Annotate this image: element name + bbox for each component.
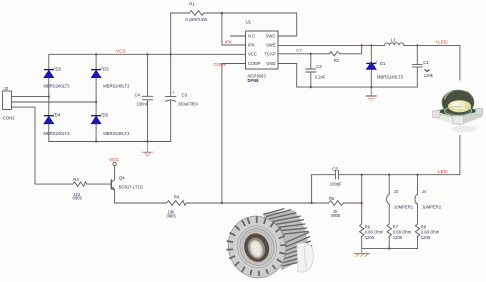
svg-text:0.68 Ohm: 0.68 Ohm <box>393 230 412 235</box>
capacitor C2 plates <box>306 68 316 70</box>
capacitor C4 leads <box>147 54 149 96</box>
svg-text:D5: D5 <box>103 113 109 118</box>
svg-text:COMP: COMP <box>248 61 261 66</box>
wire COMP vertical down <box>221 64 223 204</box>
bridge left column <box>48 54 50 69</box>
wire +LED vertical lower behind photo <box>459 135 461 175</box>
resistor R2 <box>329 52 340 56</box>
svg-text:D1: D1 <box>380 61 386 66</box>
photo of MR16 LED lamp <box>219 201 318 282</box>
resistor R6 column <box>361 175 363 224</box>
capacitor C1 leads <box>416 45 418 64</box>
svg-text:SWE: SWE <box>266 42 276 47</box>
capacitor C4 plates <box>142 95 152 97</box>
transistor Q4 <box>110 180 112 189</box>
svg-text:MBRS240LT3: MBRS240LT3 <box>377 74 404 79</box>
C1 polarity arrow <box>425 69 430 71</box>
diode D2 <box>44 67 56 78</box>
wire bottom joining R6 R7 R8 <box>362 248 418 250</box>
svg-text:L1: L1 <box>391 37 396 42</box>
capacitor C5 plates <box>334 170 336 179</box>
svg-text:COMP: COMP <box>213 62 226 67</box>
resistor R1 <box>190 11 204 16</box>
connector J2 pin wires <box>12 96 49 98</box>
svg-text:C5: C5 <box>332 166 338 171</box>
svg-text:MBRS240LT3: MBRS240LT3 <box>44 131 71 136</box>
wire R4 to R5 <box>186 202 328 204</box>
resistor R7 <box>387 224 391 237</box>
svg-text:VCC: VCC <box>248 52 257 57</box>
resistor R4 <box>167 201 187 206</box>
svg-text:1206: 1206 <box>393 235 403 240</box>
wire junction vertical to IPK <box>221 13 223 45</box>
svg-text:JUMPER2: JUMPER2 <box>422 205 442 210</box>
wire N.C stub <box>231 35 246 37</box>
svg-text:D2: D2 <box>56 66 62 71</box>
wire SWE output line <box>278 44 385 46</box>
wire CT to output jog <box>340 45 362 53</box>
diode D1 <box>366 61 378 70</box>
svg-text:D3: D3 <box>103 66 109 71</box>
wire GND pin to corner <box>278 64 297 88</box>
wire top horizontal right of R1 to SWC corner <box>204 12 297 14</box>
wire IPK to chip <box>222 44 246 46</box>
svg-text:J3: J3 <box>394 189 399 194</box>
svg-text:R5: R5 <box>329 196 335 201</box>
svg-text:0.68 Ohm: 0.68 Ohm <box>365 230 384 235</box>
svg-text:1206: 1206 <box>421 235 431 240</box>
svg-text:VCC: VCC <box>109 157 120 163</box>
svg-text:0805: 0805 <box>73 196 83 201</box>
svg-text:0805: 0805 <box>167 213 177 218</box>
wire TCAP/CT line <box>278 53 329 55</box>
wire +LED vertical upper <box>459 45 461 80</box>
jumper J4 column <box>417 175 419 195</box>
svg-text:+LED: +LED <box>435 40 448 46</box>
svg-text:IPK: IPK <box>248 42 255 47</box>
bridge right column <box>95 54 97 69</box>
photo of power LED <box>429 82 486 135</box>
svg-text:MBRS240LT3: MBRS240LT3 <box>103 131 130 136</box>
svg-text:R4: R4 <box>174 195 180 200</box>
svg-text:R1: R1 <box>189 1 195 6</box>
chip U1 box <box>246 31 279 69</box>
svg-text:JUMPER1: JUMPER1 <box>394 205 414 210</box>
diode D1 leads <box>370 45 372 63</box>
diode D5 <box>91 113 103 124</box>
capacitor C2 leads <box>310 54 312 69</box>
svg-text:Q4: Q4 <box>119 175 125 180</box>
svg-text:TCAP: TCAP <box>264 52 275 57</box>
svg-text:0805: 0805 <box>331 213 341 218</box>
ground under D1 <box>366 87 377 100</box>
svg-text:GND: GND <box>266 61 275 66</box>
svg-text:0.68 Ohm: 0.68 Ohm <box>421 230 440 235</box>
wire SWC vertical <box>296 13 298 36</box>
svg-text:R7: R7 <box>393 224 399 229</box>
svg-text:R3: R3 <box>73 177 79 182</box>
svg-text:DFN8: DFN8 <box>248 78 260 83</box>
svg-text:D4: D4 <box>55 113 61 118</box>
connector J2 box <box>3 91 12 110</box>
svg-text:CON2: CON2 <box>3 116 15 121</box>
svg-text:BC817-LT1G: BC817-LT1G <box>119 184 143 189</box>
chip U1 pin names <box>248 33 276 66</box>
svg-text:C1: C1 <box>423 60 429 65</box>
svg-text:330uF/35V: 330uF/35V <box>178 102 199 107</box>
svg-text:-LED: -LED <box>437 169 448 175</box>
wire VCC rail <box>49 53 246 55</box>
svg-text:R6: R6 <box>365 224 371 229</box>
wire top from R1 left leg down to VCC rail <box>170 13 172 54</box>
VCC power symbol circle <box>113 162 116 165</box>
resistor R3 <box>73 182 87 186</box>
svg-text:1206: 1206 <box>365 235 375 240</box>
svg-text:R8: R8 <box>421 224 427 229</box>
wire output after L1 <box>404 44 460 46</box>
capacitor C3 plates <box>166 95 176 97</box>
wire base line R3 <box>35 183 73 185</box>
svg-text:SWC: SWC <box>266 33 276 38</box>
ground under C4 <box>142 142 153 157</box>
diode D4 <box>44 113 56 124</box>
ground under R6 <box>354 249 370 257</box>
jumper J3 column <box>388 175 390 195</box>
resistor R8 <box>415 224 419 237</box>
svg-text:+: + <box>172 90 175 95</box>
svg-text:CT: CT <box>296 48 302 53</box>
svg-text:C4: C4 <box>135 93 141 98</box>
capacitor C3 leads <box>170 54 172 96</box>
svg-text:C2: C2 <box>316 64 322 69</box>
wire emitter line <box>115 202 167 204</box>
svg-text:MBRS240LT3: MBRS240LT3 <box>103 84 130 89</box>
svg-text:IPK: IPK <box>225 40 232 45</box>
svg-text:120k: 120k <box>424 73 434 78</box>
svg-text:J4: J4 <box>422 189 427 194</box>
wire COMP to chip <box>222 63 246 65</box>
svg-text:C3: C3 <box>182 93 188 98</box>
bridge bottom rail <box>49 141 171 143</box>
capacitor C1 plates <box>412 63 422 65</box>
wire GND net horizontal <box>297 86 418 88</box>
svg-text:0.15R/0.5W: 0.15R/0.5W <box>185 17 207 22</box>
svg-text:N.C: N.C <box>248 33 255 38</box>
svg-text:100nF: 100nF <box>137 102 149 107</box>
svg-text:U1: U1 <box>246 20 252 25</box>
svg-text:R2: R2 <box>334 58 340 63</box>
wire R5 right to R6 column <box>343 202 361 204</box>
svg-text:MBRS240LT3: MBRS240LT3 <box>44 84 71 89</box>
svg-text:J2: J2 <box>4 86 9 91</box>
wire SWC to chip <box>278 35 297 37</box>
svg-text:2.2nF: 2.2nF <box>315 75 326 80</box>
wire R3 to base <box>87 183 112 185</box>
wire C5 left leg <box>311 175 313 203</box>
wire C5 line right to -LED corner <box>338 174 460 176</box>
svg-text:VCC: VCC <box>116 49 127 55</box>
wire C5 line left <box>312 174 336 176</box>
wire top horizontal left of R1 <box>171 12 190 14</box>
svg-text:100pF: 100pF <box>330 182 342 187</box>
inductor L1 <box>385 43 404 46</box>
diode D3 <box>91 67 103 78</box>
resistor R5 <box>329 201 344 206</box>
